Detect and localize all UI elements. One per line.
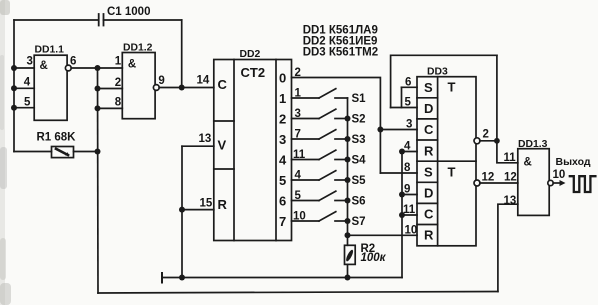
switch labels S1-S7 xyxy=(352,93,367,228)
capacitor C1 xyxy=(99,14,104,26)
svg-text:7: 7 xyxy=(279,214,286,229)
resistor R2 body xyxy=(345,245,356,264)
node dot output-0 branch xyxy=(377,127,383,133)
switch S5 xyxy=(292,171,348,180)
svg-text:&: & xyxy=(40,60,48,72)
svg-text:5: 5 xyxy=(24,97,31,109)
wire DD1.3 pin 13 to bottom rail B xyxy=(498,204,518,291)
resistor R2 bottom lead xyxy=(347,264,349,277)
svg-text:R: R xyxy=(424,228,434,243)
wire V-R common vertical xyxy=(181,146,183,277)
svg-text:6: 6 xyxy=(70,55,76,67)
node dots on pins vertical xyxy=(399,149,405,219)
svg-text:S7: S7 xyxy=(352,216,366,228)
svg-text:13: 13 xyxy=(199,133,212,145)
wire FF2 output to DD1.3 pin 12 xyxy=(480,182,518,184)
node dots on switch bus xyxy=(345,116,351,239)
wire to DD3 pin 8 S input xyxy=(380,172,417,174)
parts list text xyxy=(303,25,378,59)
svg-text:S2: S2 xyxy=(352,114,366,126)
R1 variable arrow xyxy=(56,149,68,155)
wire DD3 pin 6 stub xyxy=(402,86,418,88)
svg-text:5: 5 xyxy=(279,173,286,188)
op-amp U-gate DD1.3 body xyxy=(518,149,549,216)
node dot DD1.2 output junction xyxy=(179,85,185,91)
svg-text:R: R xyxy=(424,143,434,158)
svg-text:S: S xyxy=(424,164,433,179)
svg-text:&: & xyxy=(524,157,532,169)
DD1.3 output bubble xyxy=(548,180,553,185)
svg-text:C: C xyxy=(424,206,434,221)
svg-text:4: 4 xyxy=(404,141,411,153)
svg-text:4: 4 xyxy=(24,76,31,88)
wire feedback vertical down to DD1.3 pin 11 xyxy=(497,55,518,163)
svg-text:2: 2 xyxy=(279,111,286,126)
wire pin6-pin5 link vertical xyxy=(401,87,403,107)
DD3 FF1 output bubble xyxy=(474,138,480,144)
switch S4 xyxy=(292,150,348,159)
node junction dots on left bus xyxy=(11,65,17,111)
svg-text:V: V xyxy=(218,138,227,153)
svg-text:S1: S1 xyxy=(352,93,367,105)
wire DD1.2 output to node xyxy=(159,87,182,89)
wire DD2 R input stub xyxy=(182,209,214,211)
svg-text:DD2: DD2 xyxy=(240,49,261,60)
wire DD1.1 input stubs xyxy=(14,67,34,69)
resistor R1 body xyxy=(52,147,74,158)
wire R1 to mid bus xyxy=(74,151,98,153)
svg-text:DD1.2: DD1.2 xyxy=(123,43,153,54)
node dot Q1 junction xyxy=(494,138,500,144)
svg-text:6: 6 xyxy=(279,193,286,208)
svg-text:S3: S3 xyxy=(352,134,366,146)
wire DD2 V input stub xyxy=(182,145,214,147)
svg-text:12: 12 xyxy=(504,172,517,184)
wire DD3 pin 5 stub xyxy=(391,107,417,109)
op-amp U-gate DD1.2 body xyxy=(122,53,155,119)
wire top rail left segment to C1 xyxy=(14,19,97,21)
square wave symbol xyxy=(570,176,596,192)
svg-text:DD1.3: DD1.3 xyxy=(518,139,548,150)
switch S6 xyxy=(292,191,348,200)
svg-text:C: C xyxy=(424,122,434,137)
svg-text:5: 5 xyxy=(405,97,412,109)
svg-text:11: 11 xyxy=(403,204,416,216)
svg-text:DD1.1: DD1.1 xyxy=(35,45,65,56)
svg-text:14: 14 xyxy=(197,75,210,87)
svg-text:DD3: DD3 xyxy=(427,67,448,78)
DD3 internal dividers xyxy=(437,77,439,246)
svg-text:S6: S6 xyxy=(352,196,366,208)
output arrow xyxy=(553,182,561,184)
svg-text:S5: S5 xyxy=(352,175,367,187)
wire FF1 output to junction xyxy=(480,140,497,142)
wire DD3 pin 11 stub xyxy=(402,214,417,216)
svg-text:R: R xyxy=(218,197,228,212)
wire bus to DD3 pin 10 R input xyxy=(348,234,418,236)
wire DD1.1 output to mid bus xyxy=(71,67,97,69)
flip-flop DD3 body xyxy=(417,77,476,246)
wire mid vertical bus xyxy=(97,68,100,293)
svg-text:R1 68K: R1 68K xyxy=(37,132,77,144)
svg-text:9: 9 xyxy=(404,184,410,196)
svg-text:6: 6 xyxy=(405,76,411,88)
R2 variable arrow xyxy=(345,249,355,262)
svg-text:3: 3 xyxy=(279,132,286,147)
wire DD3 pin 4 stub xyxy=(402,151,417,153)
svg-text:12: 12 xyxy=(482,172,495,184)
svg-text:10: 10 xyxy=(553,169,566,181)
wire ground rail A xyxy=(162,277,402,279)
svg-text:CT2: CT2 xyxy=(241,65,266,80)
DD1.2 output inverter bubble xyxy=(153,85,159,91)
op-amp U-gate DD1.1 body xyxy=(34,55,67,120)
switch S1 xyxy=(292,89,348,98)
svg-text:T: T xyxy=(448,165,456,180)
node dots on rail A xyxy=(179,275,351,281)
wire Q1-feedback vertical and top run xyxy=(391,55,497,107)
scan smudges left edge xyxy=(0,0,11,305)
svg-text:9: 9 xyxy=(158,75,164,87)
wire to DD3 pin 3 C input xyxy=(380,129,417,131)
switch S7 xyxy=(292,212,348,221)
svg-text:4: 4 xyxy=(279,152,287,167)
svg-text:S4: S4 xyxy=(352,155,367,167)
svg-text:&: & xyxy=(128,59,136,71)
svg-text:DD3 К561ТМ2: DD3 К561ТМ2 xyxy=(303,46,378,58)
DD2 right pin number labels xyxy=(293,67,306,223)
svg-text:1: 1 xyxy=(279,91,286,106)
svg-text:8: 8 xyxy=(404,162,411,174)
node junction dots on mid bus xyxy=(95,65,101,155)
svg-text:D: D xyxy=(424,101,433,116)
wire top rail right segment from C1 xyxy=(104,19,182,21)
wire node to DD2 C input pin 14 xyxy=(182,87,214,89)
svg-text:1: 1 xyxy=(115,56,122,68)
svg-text:13: 13 xyxy=(504,195,517,207)
DD1.1 output inverter bubble xyxy=(65,65,71,71)
DD3 FF2 output bubble xyxy=(474,180,480,186)
svg-text:S: S xyxy=(424,80,433,95)
svg-text:0: 0 xyxy=(279,70,286,85)
svg-text:T: T xyxy=(448,80,456,95)
DD3 left pin labels xyxy=(403,76,417,236)
ground rail A terminal tick xyxy=(161,273,163,283)
svg-text:15: 15 xyxy=(200,198,213,210)
svg-text:D: D xyxy=(424,185,433,200)
svg-text:C: C xyxy=(218,77,228,92)
DD3 T labels xyxy=(448,80,456,180)
svg-text:2: 2 xyxy=(115,77,121,89)
DD2 internal divider lines xyxy=(233,60,235,241)
wire left vertical bus xyxy=(13,20,15,152)
svg-text:11: 11 xyxy=(504,152,517,164)
node dot R stub junction xyxy=(179,207,185,213)
wire bottom rail B xyxy=(98,292,498,294)
svg-text:100к: 100к xyxy=(361,252,387,264)
resistor R2 top lead xyxy=(347,235,349,245)
svg-text:8: 8 xyxy=(115,97,122,109)
wire C1 down vertical to node xyxy=(181,20,183,88)
resistor R1 wire from left bus xyxy=(14,151,52,153)
switch S2 xyxy=(292,109,348,118)
svg-text:2: 2 xyxy=(483,129,489,141)
DD2 output digits 0-7 xyxy=(279,70,287,229)
svg-text:3: 3 xyxy=(27,56,33,68)
svg-text:C1 1000: C1 1000 xyxy=(107,6,150,18)
wire DD1.2 input stubs xyxy=(98,67,123,69)
wire DD3 pin 9 stub xyxy=(402,194,417,196)
svg-text:3: 3 xyxy=(406,119,412,131)
wire DD3 pins 4-9-11 vertical xyxy=(401,152,403,278)
wire DD2 output 0 to DD3 xyxy=(292,78,381,174)
svg-text:10: 10 xyxy=(405,224,418,236)
switch S3 xyxy=(292,130,348,139)
counter DD2 body xyxy=(214,60,292,241)
wire switch common bus xyxy=(347,98,349,235)
DD3 input letters xyxy=(424,80,434,243)
svg-text:Выход: Выход xyxy=(556,156,591,168)
